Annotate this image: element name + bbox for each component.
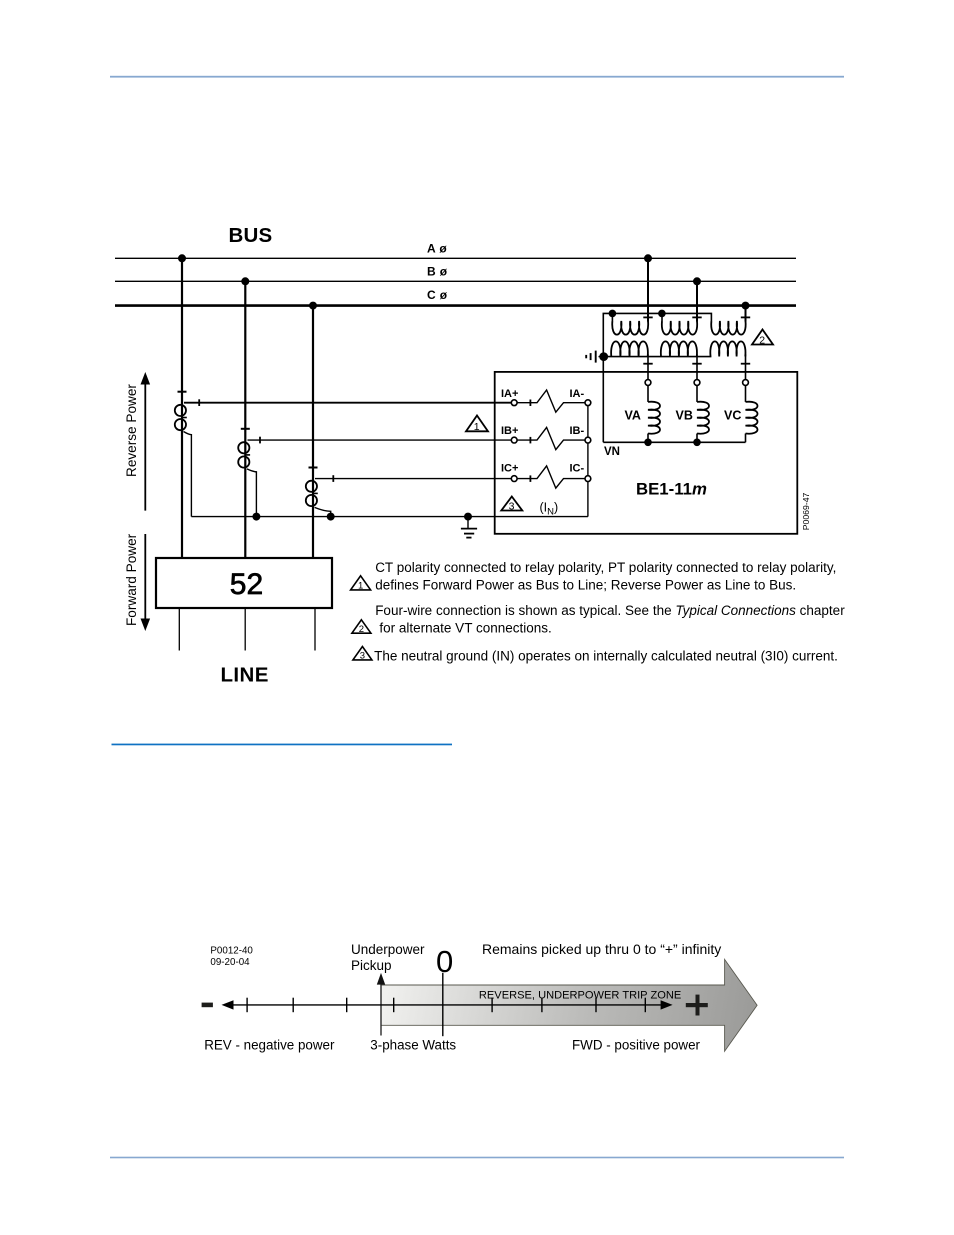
VT3 primary polarity tick — [741, 316, 750, 318]
ground symbol neutral — [461, 517, 477, 538]
VT2 primary polarity tick — [692, 316, 701, 318]
junction dot CT C return — [327, 513, 335, 521]
svg-text:VB: VB — [676, 408, 693, 422]
CT phase C secondary winding — [306, 481, 318, 506]
junction dot phase C left tap — [309, 302, 317, 310]
node BUS label — [229, 224, 273, 247]
junction dot ground tap — [464, 513, 472, 521]
wire phase A VT drop — [647, 258, 649, 321]
reverse power arrow — [141, 372, 151, 511]
CT phase A polarity tick — [178, 391, 187, 393]
svg-text:VN: VN — [604, 446, 620, 458]
note triangle 3 — [353, 647, 372, 662]
VT2 secondary polarity tick — [692, 363, 701, 365]
wire phase A bus — [115, 257, 796, 259]
wire line B below breaker — [244, 608, 246, 651]
svg-text:IC-: IC- — [570, 463, 585, 475]
svg-text:Forward Power: Forward Power — [124, 533, 139, 626]
zero label — [436, 944, 453, 979]
junction dot phase A left tap — [178, 254, 186, 262]
node IN label — [540, 501, 559, 518]
coil VB — [697, 385, 709, 442]
terminal VB — [694, 380, 700, 386]
CT shunt A zigzag — [517, 390, 585, 412]
svg-text:LINE: LINE — [221, 663, 269, 686]
zero axis line — [442, 973, 444, 1036]
CT phase B secondary winding — [238, 442, 250, 467]
note triangle 2 — [352, 620, 371, 635]
junction dot phase B right tap — [693, 277, 701, 285]
axis captions — [204, 1037, 700, 1052]
breaker 52 box — [156, 558, 332, 608]
svg-text:Pickup: Pickup — [351, 958, 392, 973]
svg-text:A ø: A ø — [427, 242, 447, 256]
svg-text:for alternate VT connections.: for alternate VT connections. — [379, 621, 551, 636]
svg-text:VA: VA — [625, 408, 641, 422]
wire phase C drop — [312, 306, 314, 558]
svg-text:FWD - positive power: FWD - positive power — [572, 1037, 701, 1052]
VT secondary common bus wire — [604, 356, 712, 358]
CT A secondary polarity tick — [198, 399, 200, 406]
VT primary bus wire — [603, 313, 711, 442]
svg-text:2: 2 — [759, 335, 765, 347]
forward power label — [124, 533, 139, 626]
label VA — [625, 408, 641, 422]
VT3 primary winding — [711, 321, 745, 335]
svg-text:Four-wire connection is shown: Four-wire connection is shown as typical… — [375, 603, 845, 618]
junction dot VA-VN — [644, 439, 652, 447]
coil VA — [648, 385, 660, 442]
drawing number P0012-40 — [210, 945, 253, 967]
warning triangle 2 — [752, 330, 773, 347]
node C phase label — [427, 288, 448, 302]
terminal IC- — [570, 463, 591, 482]
VT1 primary lead — [611, 313, 613, 321]
svg-text:B ø: B ø — [427, 265, 448, 279]
node B phase label — [427, 265, 448, 279]
svg-text:Reverse Power: Reverse Power — [124, 384, 139, 477]
warning triangle 3 — [501, 497, 522, 513]
wire VT2 secondary to VB terminal — [696, 354, 698, 379]
wire I-minus bus — [587, 406, 589, 517]
svg-text:1: 1 — [358, 581, 363, 592]
junction dot phase B left tap — [241, 277, 249, 285]
svg-text:defines Forward Power as Bus t: defines Forward Power as Bus to Line; Re… — [375, 577, 796, 592]
CT shunt B zigzag — [517, 427, 585, 449]
svg-text:3-phase Watts: 3-phase Watts — [370, 1037, 456, 1052]
junction dot phase C right tap — [742, 302, 750, 310]
wire line A below breaker — [178, 608, 180, 651]
svg-text:IB+: IB+ — [501, 425, 518, 437]
ground symbol VT common — [586, 351, 604, 363]
terminal IC+ — [501, 463, 518, 482]
drawing number P0069-47 — [801, 492, 811, 530]
VT1 secondary winding — [611, 341, 648, 356]
terminal IB- — [570, 425, 591, 443]
node VN label — [604, 446, 620, 458]
svg-text:Underpower: Underpower — [351, 942, 425, 957]
svg-text:C ø: C ø — [427, 288, 448, 302]
node A phase label — [427, 242, 447, 256]
CT shunt C zigzag — [517, 466, 585, 488]
VT3 secondary polarity tick — [741, 363, 750, 365]
svg-text:P0069-47: P0069-47 — [801, 492, 811, 530]
coil VC — [746, 385, 758, 442]
svg-text:CT polarity connected to relay: CT polarity connected to relay polarity,… — [375, 560, 836, 575]
wire VT1 secondary to VA terminal — [647, 354, 649, 379]
wire CT B secondary return — [247, 469, 256, 517]
wire CT C secondary return — [315, 507, 331, 516]
CT B secondary polarity tick — [259, 437, 261, 444]
terminal IB+ — [501, 425, 518, 443]
axis tick marks — [247, 998, 645, 1013]
svg-text:BUS: BUS — [229, 224, 273, 247]
CT C secondary polarity tick — [332, 475, 334, 482]
svg-text:IB-: IB- — [570, 425, 585, 437]
plus sign — [686, 995, 708, 1016]
VT2 primary winding — [662, 321, 697, 335]
underpower pickup marker arrow — [377, 973, 385, 1036]
svg-text:09-20-04: 09-20-04 — [210, 957, 250, 968]
wire phase A drop — [181, 258, 183, 558]
trip zone label — [479, 990, 681, 1002]
reverse power label — [124, 384, 139, 477]
relay label BE1-11m — [636, 479, 707, 498]
wire phase B bus — [115, 280, 796, 282]
svg-text:VC: VC — [724, 408, 741, 422]
node LINE label — [221, 663, 269, 686]
svg-text:52: 52 — [230, 568, 263, 601]
note 1 text — [375, 560, 836, 593]
svg-text:IA+: IA+ — [501, 388, 518, 400]
VT2 primary lead — [661, 313, 663, 321]
label VC — [724, 408, 741, 422]
junction dot VT2 primary — [658, 310, 666, 318]
junction dot CT B return — [252, 513, 260, 521]
svg-text:The neutral ground (IN) operat: The neutral ground (IN) operates on inte… — [374, 648, 838, 663]
svg-text:REV - negative power: REV - negative power — [204, 1037, 335, 1052]
svg-text:1: 1 — [474, 421, 480, 433]
svg-text:2: 2 — [359, 624, 364, 635]
junction dot VB-VN — [693, 439, 701, 447]
VT1 primary winding — [612, 321, 648, 335]
VT1 primary polarity tick — [643, 316, 652, 318]
wire CT A secondary return — [184, 432, 192, 517]
forward power arrow — [141, 534, 151, 631]
svg-text:P0012-40: P0012-40 — [210, 945, 253, 956]
CT shunt C polarity tick — [529, 475, 531, 482]
relay BE1-11m case — [495, 372, 798, 534]
wire neutral return — [191, 516, 588, 518]
terminal IA- — [570, 388, 591, 406]
wire phase C bus — [115, 304, 796, 307]
section rule — [112, 744, 453, 746]
underpower pickup label — [351, 942, 425, 973]
note 2 text — [375, 603, 845, 635]
wire phase B drop — [244, 281, 246, 558]
wire CT B secondary lead to IB+ — [248, 439, 512, 441]
note triangle 1 — [351, 576, 371, 592]
wire VT3 secondary to VC terminal — [745, 354, 747, 379]
footer rule — [110, 1157, 844, 1159]
CT phase B polarity tick — [241, 428, 250, 430]
wire CT A secondary lead to IA+ — [184, 402, 511, 404]
svg-text:REVERSE, UNDERPOWER TRIP ZONE: REVERSE, UNDERPOWER TRIP ZONE — [479, 990, 681, 1002]
CT phase A secondary winding — [175, 405, 187, 430]
CT shunt A polarity tick — [529, 400, 531, 407]
minus sign — [202, 1003, 213, 1008]
label VB — [676, 408, 693, 422]
terminal VA — [645, 380, 651, 386]
wire phase C VT drop — [745, 306, 747, 322]
terminal IA+ — [501, 388, 518, 406]
VT3 secondary winding — [710, 341, 745, 356]
svg-text:3: 3 — [509, 501, 515, 513]
wire VN bus — [603, 441, 745, 443]
svg-text:IA-: IA- — [570, 388, 585, 400]
svg-text:BE1-11m: BE1-11m — [636, 479, 707, 498]
note 3 text — [374, 648, 838, 663]
junction dot phase A right tap — [644, 254, 652, 262]
svg-text:Remains picked up thru 0 to “+: Remains picked up thru 0 to “+” infinity — [482, 941, 721, 957]
VT1 secondary polarity tick — [643, 363, 652, 365]
wire line C below breaker — [314, 608, 316, 651]
svg-text:IC+: IC+ — [501, 463, 518, 475]
header rule — [110, 76, 844, 78]
svg-text:0: 0 — [436, 944, 453, 979]
wire phase B VT drop — [696, 281, 698, 321]
svg-text:3: 3 — [360, 651, 365, 662]
junction dot VT1 primary — [609, 310, 617, 318]
svg-text:(IN): (IN) — [540, 501, 559, 518]
junction dot VT common ground — [599, 352, 608, 361]
CT phase C polarity tick — [309, 467, 318, 469]
terminal VC — [743, 380, 749, 386]
VT2 secondary winding — [661, 341, 697, 356]
warning triangle 1 — [466, 416, 488, 434]
CT shunt B polarity tick — [529, 437, 531, 444]
wire CT C secondary lead to IC+ — [315, 478, 511, 480]
remains picked up label — [482, 941, 721, 957]
power axis line — [222, 1000, 673, 1009]
